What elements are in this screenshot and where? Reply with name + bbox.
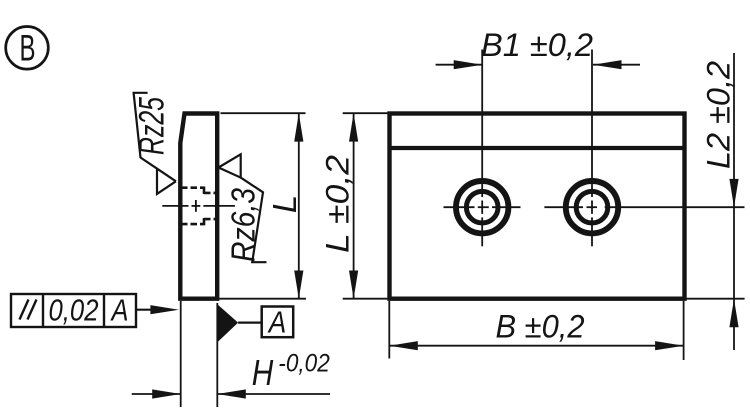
- svg-text:Rz25: Rz25: [133, 97, 172, 155]
- svg-text:L ±0,2: L ±0,2: [320, 155, 356, 253]
- svg-text:L2 ±0,2: L2 ±0,2: [701, 61, 737, 169]
- svg-text:Rz6,3: Rz6,3: [226, 188, 263, 262]
- svg-text:0,02: 0,02: [49, 293, 99, 328]
- svg-text:A: A: [267, 305, 286, 340]
- svg-text:A: A: [110, 293, 129, 328]
- svg-text:L: L: [266, 195, 303, 213]
- svg-text:-0,02: -0,02: [278, 350, 330, 378]
- svg-text:B ±0,2: B ±0,2: [496, 308, 585, 344]
- svg-text:B: B: [20, 27, 36, 68]
- svg-text:H: H: [252, 352, 274, 393]
- svg-text:B1 ±0,2: B1 ±0,2: [481, 27, 593, 63]
